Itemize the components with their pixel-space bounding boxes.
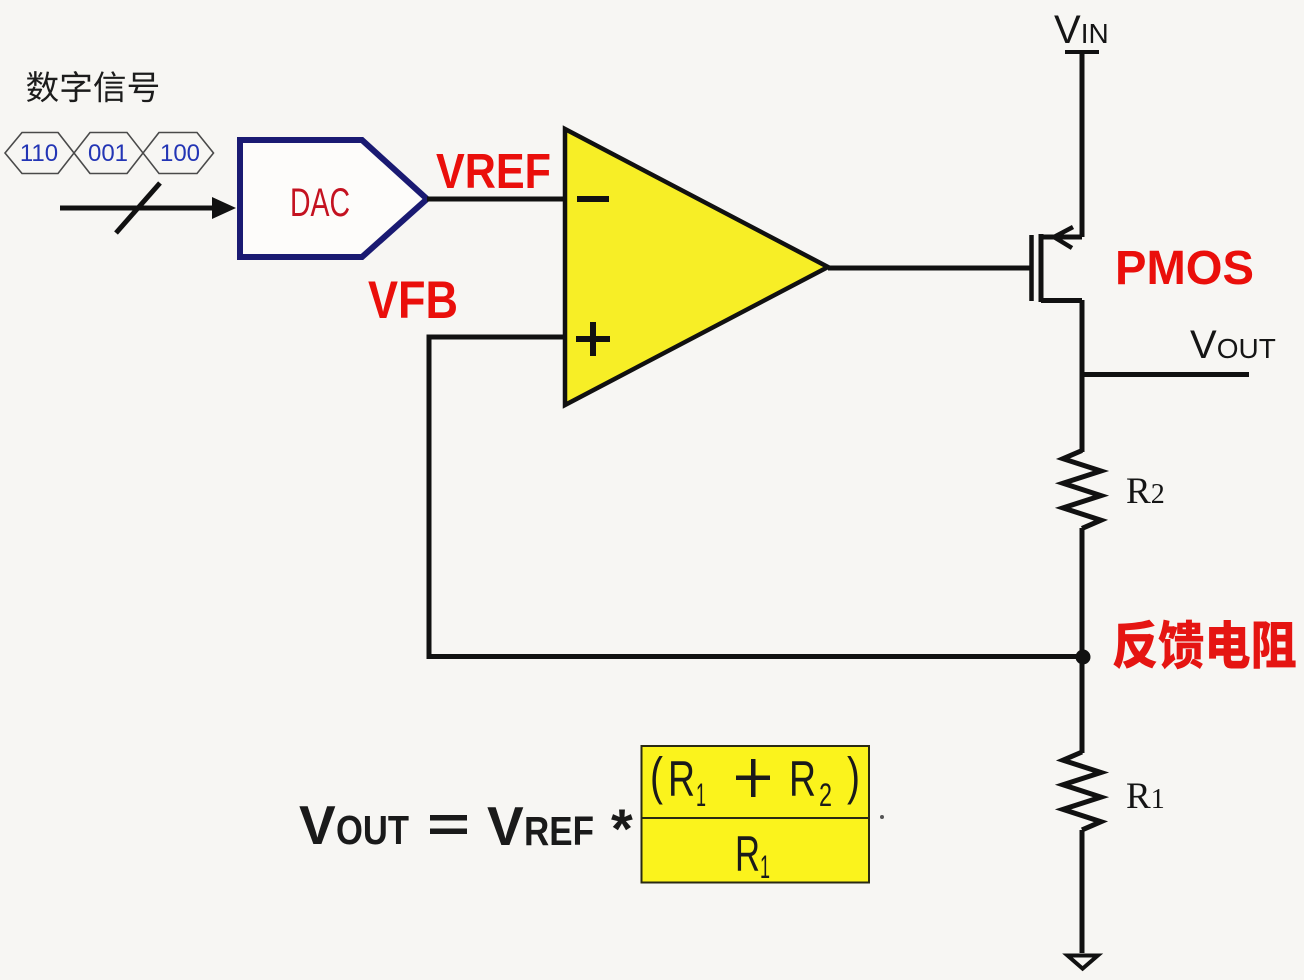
svg-text:110: 110 (20, 140, 58, 167)
svg-text:100: 100 (160, 140, 200, 167)
wire: feedback node to R1 (1080, 657, 1085, 753)
wire: R2 to feedback node (1080, 528, 1085, 657)
svg-text:R: R (789, 751, 816, 807)
junction: feedback node (1076, 650, 1091, 665)
svg-text:PMOS: PMOS (1115, 242, 1254, 295)
svg-text:VOUT: VOUT (1190, 323, 1276, 367)
svg-text:VFB: VFB (368, 271, 458, 330)
svg-text:VIN: VIN (1054, 8, 1109, 52)
op-amp U2 (565, 129, 828, 405)
bus waveform hexagons (5, 133, 214, 174)
svg-text:DAC: DAC (290, 181, 350, 225)
formula: VOUT = VREF * (299, 794, 633, 860)
formula fraction box (642, 746, 870, 883)
resistor R1 (1063, 752, 1101, 830)
wire: DAC output to op-amp inverting input (VREF net) (427, 197, 565, 202)
resistor R2 (1063, 451, 1101, 529)
formula denominator R1 (735, 826, 770, 885)
bus width slash (116, 183, 160, 233)
stray mark (880, 815, 884, 819)
label: feedback resistor 反馈电阻 (1113, 620, 1156, 669)
svg-text:V: V (299, 794, 336, 856)
svg-text:R1: R1 (1126, 776, 1165, 817)
svg-text:R: R (668, 751, 695, 807)
label: digital signal 数字信号 (27, 71, 58, 102)
wire: feedback node to op-amp non-inverting input (429, 337, 1083, 657)
net VIN terminal bar (1065, 50, 1099, 54)
wire: PMOS drain to R2 (1080, 300, 1085, 452)
svg-text:REF: REF (524, 808, 594, 854)
svg-text:VREF: VREF (436, 145, 551, 199)
svg-text:R2: R2 (1126, 471, 1165, 512)
svg-text:V: V (487, 795, 524, 857)
svg-text:OUT: OUT (336, 807, 409, 853)
wire: VIN to PMOS source (1080, 52, 1085, 237)
svg-text:*: * (611, 797, 633, 860)
svg-text:): ) (847, 748, 860, 806)
svg-text:1: 1 (760, 849, 770, 885)
bus arrow into DAC (60, 197, 236, 219)
svg-text:001: 001 (88, 140, 128, 167)
wire: op-amp output to PMOS gate (828, 266, 1031, 271)
wire: R1 to ground (1080, 830, 1085, 953)
ground symbol (1068, 956, 1098, 969)
DAC block U1 (240, 140, 427, 257)
transistor Q1 PMOS (1032, 227, 1083, 302)
svg-text:1: 1 (696, 777, 706, 813)
svg-text:(: ( (650, 748, 664, 806)
op-amp inverting input symbol (minus) (577, 196, 609, 202)
wire: VOUT tap (1082, 372, 1249, 377)
svg-text:2: 2 (819, 777, 832, 813)
formula numerator (R1 + R2) (650, 748, 860, 814)
svg-text:R: R (735, 826, 760, 882)
op-amp non-inverting input symbol (plus) (576, 322, 610, 356)
